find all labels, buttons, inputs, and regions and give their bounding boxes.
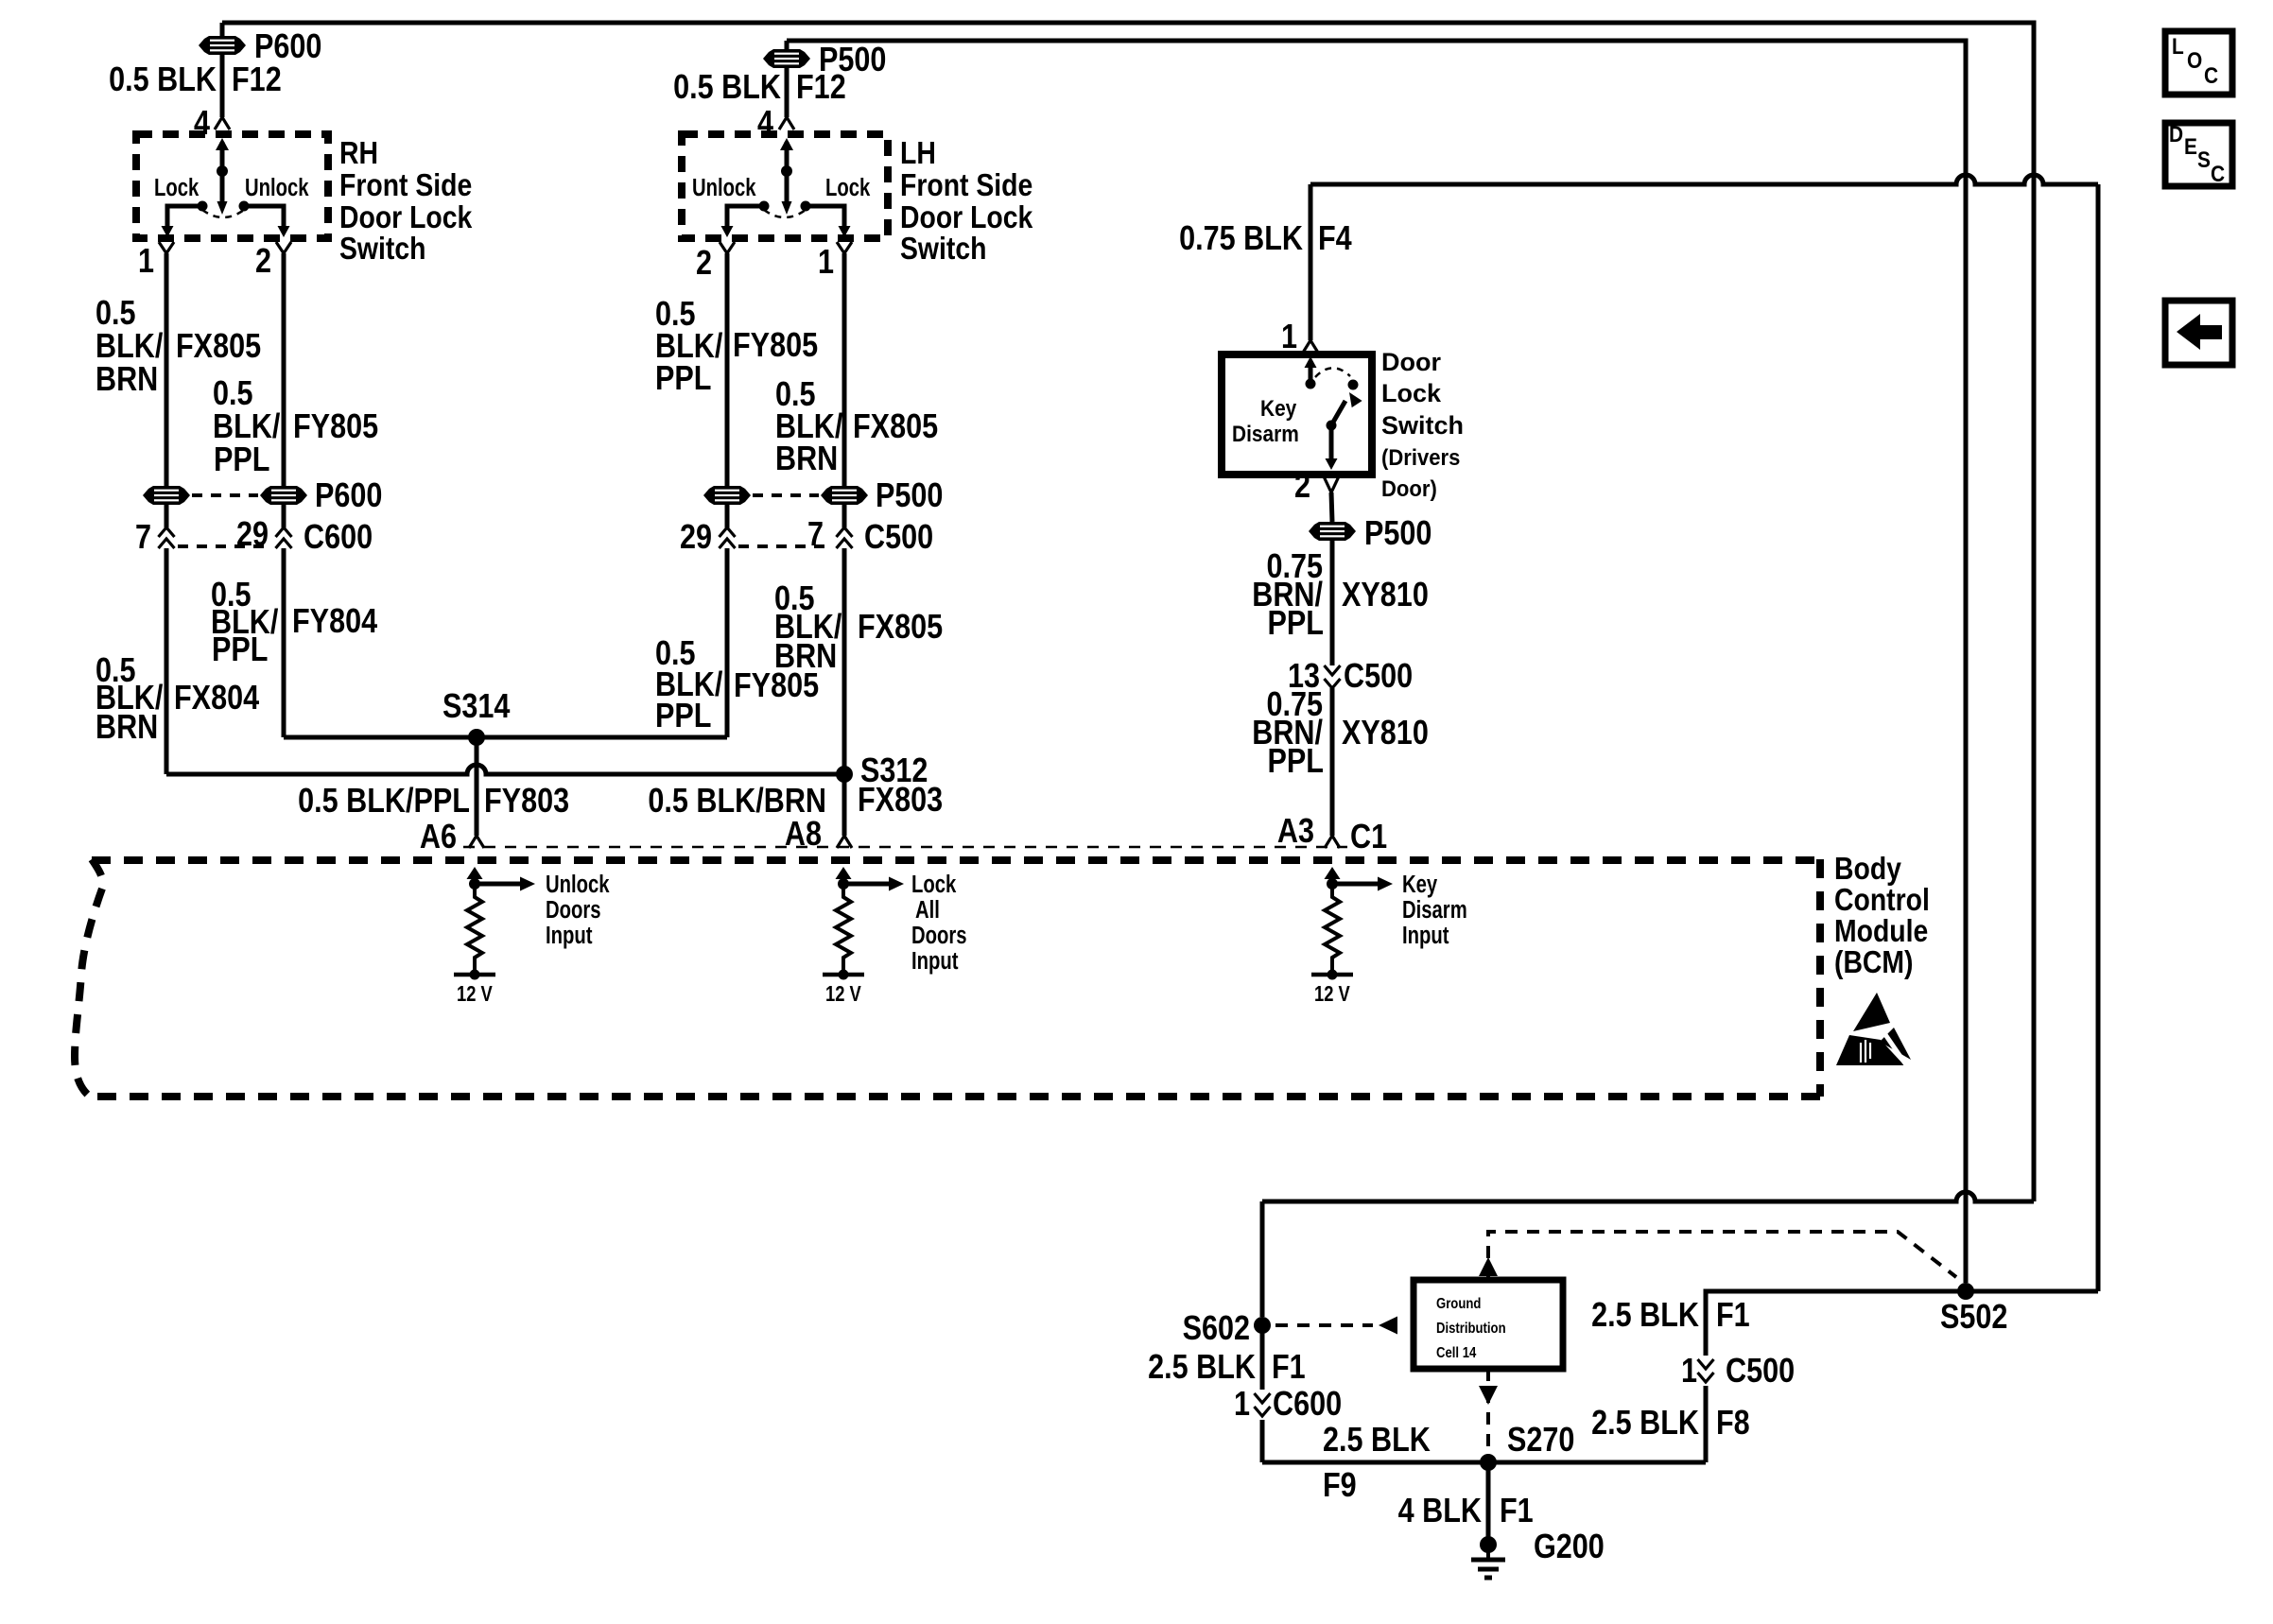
LH switch Lock contact dot	[801, 201, 811, 212]
svg-text:C500: C500	[864, 519, 933, 557]
svg-text:Lock: Lock	[911, 871, 956, 898]
wire drivers pin 2 to P500	[1331, 492, 1332, 522]
dashed tie C500	[738, 544, 833, 548]
resistor unlock doors input (A6)	[473, 873, 477, 884]
svg-text:Unlock: Unlock	[692, 174, 756, 201]
pin 1 terminal fork (LH)	[837, 242, 852, 253]
wire S602 down through C600	[1260, 1325, 1265, 1390]
pin 1 terminal fork (RH)	[159, 242, 174, 253]
svg-text:FY805: FY805	[293, 408, 378, 446]
svg-text:P500: P500	[1364, 515, 1431, 553]
svg-text:2.5 BLK: 2.5 BLK	[1323, 1422, 1431, 1460]
pin 2 terminal fork (RH)	[276, 242, 291, 253]
svg-text:F8: F8	[1716, 1405, 1750, 1443]
connector P500 grommet (drivers)	[1309, 522, 1356, 541]
svg-text:L: L	[2172, 34, 2184, 60]
wire FY803 from S314 down to BCM A6	[475, 737, 479, 836]
svg-text:S502: S502	[1940, 1299, 2007, 1337]
wire FY805 LH pin2 down to P500	[725, 253, 730, 486]
wire XY810 lower segment	[1330, 688, 1335, 836]
wire RH pin2 below P600	[282, 505, 286, 527]
svg-text:PPL: PPL	[1268, 605, 1324, 643]
svg-text:1: 1	[818, 244, 834, 282]
svg-text:Input: Input	[1402, 922, 1449, 949]
svg-text:F1: F1	[1716, 1297, 1750, 1335]
BCM dashed top border	[92, 856, 1820, 864]
svg-text:FX803: FX803	[858, 782, 943, 820]
svg-text:G200: G200	[1534, 1529, 1605, 1566]
svg-text:All: All	[915, 896, 940, 924]
terminal fork A8	[837, 836, 852, 848]
svg-text:0.5 BLK: 0.5 BLK	[673, 69, 781, 107]
svg-text:2: 2	[1294, 468, 1310, 506]
svg-text:FY805: FY805	[734, 667, 819, 705]
wire FY805 RH pin2 down to P600	[282, 253, 286, 486]
svg-text:7: 7	[135, 519, 151, 557]
svg-text:2.5 BLK: 2.5 BLK	[1591, 1405, 1699, 1443]
svg-text:Input: Input	[546, 922, 593, 949]
drivers switch wire down to pin 2	[1329, 425, 1334, 459]
svg-text:Body: Body	[1834, 851, 1901, 887]
RH switch Lock contact dot	[198, 201, 208, 212]
RH front side door lock switch dashed box	[136, 134, 328, 238]
DESC legend box	[2165, 123, 2232, 186]
svg-text:Front Side: Front Side	[339, 167, 472, 203]
back arrow legend box	[2165, 301, 2232, 365]
RH switch wiper dashed arc	[202, 210, 244, 217]
wire stub P500 to LH switch pin 4	[785, 41, 789, 49]
svg-text:P500: P500	[876, 477, 943, 515]
wire 0.75 BLK F4 riser	[1309, 184, 1313, 340]
RH switch Unlock contact dot	[239, 201, 250, 212]
svg-text:BRN: BRN	[95, 709, 158, 747]
splice S312 junction dot	[836, 766, 853, 783]
svg-text:C500: C500	[1726, 1353, 1795, 1391]
svg-text:(Drivers: (Drivers	[1381, 444, 1460, 470]
wire LH pin2 below P500	[725, 505, 730, 527]
wire 2.5 BLK F1 bottom run through S502 splice	[1706, 1291, 2098, 1356]
svg-text:C: C	[2204, 63, 2218, 89]
svg-text:Switch: Switch	[1381, 411, 1464, 440]
dashed tie between P500 grommets	[753, 493, 819, 497]
svg-text:Door Lock: Door Lock	[900, 199, 1033, 235]
svg-text:LH: LH	[900, 135, 936, 171]
svg-text:0.5 BLK/PPL: 0.5 BLK/PPL	[298, 783, 470, 821]
svg-text:4 BLK: 4 BLK	[1398, 1493, 1482, 1530]
svg-text:BRN: BRN	[95, 361, 158, 399]
svg-text:2.5 BLK: 2.5 BLK	[1591, 1297, 1699, 1335]
wire RH pin1 below P600	[165, 505, 169, 527]
connector C500 chevrons pin1	[1698, 1359, 1714, 1382]
wire FX805 LH pin1 down to P500	[842, 253, 847, 486]
svg-text:Door: Door	[1381, 348, 1441, 376]
wire RH pin1 to S312 (horizontal with hop)	[166, 765, 844, 774]
wire RH pin2 to S314 to LH pin2 (horizontal)	[284, 735, 727, 740]
svg-text:BLK/: BLK/	[213, 408, 280, 446]
svg-text:Lock: Lock	[1381, 379, 1442, 407]
svg-text:FY804: FY804	[292, 603, 377, 641]
BCM dashed bottom border	[90, 1093, 1820, 1100]
svg-text:Doors: Doors	[911, 922, 967, 949]
svg-text:Switch: Switch	[339, 231, 425, 267]
svg-text:FX804: FX804	[174, 680, 259, 717]
svg-text:2.5 BLK: 2.5 BLK	[1148, 1349, 1256, 1387]
svg-text:PPL: PPL	[214, 441, 269, 479]
svg-text:12 V: 12 V	[1314, 982, 1350, 1006]
svg-text:S270: S270	[1507, 1422, 1574, 1460]
resistor lock all doors input (A8)	[842, 873, 846, 884]
wire stub P600 to RH switch pin 4	[220, 23, 225, 36]
dashed reference S602 to ground distribution cell	[1275, 1323, 1373, 1327]
svg-text:Lock: Lock	[825, 174, 870, 201]
LH switch Lock branch wire	[806, 206, 844, 227]
svg-text:PPL: PPL	[655, 360, 711, 398]
svg-text:RH: RH	[339, 135, 378, 171]
drivers switch wiper dot	[1327, 421, 1337, 431]
svg-text:O: O	[2187, 48, 2202, 74]
svg-text:Key: Key	[1402, 871, 1437, 898]
svg-text:F1: F1	[1272, 1349, 1306, 1387]
wire 4 BLK F1 to ground	[1486, 1462, 1491, 1538]
svg-text:12 V: 12 V	[457, 982, 493, 1006]
svg-text:XY810: XY810	[1342, 577, 1429, 614]
svg-text:Input: Input	[911, 947, 959, 975]
svg-text:Module: Module	[1834, 913, 1928, 949]
svg-text:Control: Control	[1834, 882, 1930, 918]
BCM dashed left torn edge	[75, 859, 103, 1097]
svg-text:Cell 14: Cell 14	[1436, 1345, 1477, 1361]
svg-text:C1: C1	[1350, 819, 1387, 856]
connector P500 (LH, F12 feed) grommet	[763, 49, 810, 68]
connector C600 chevrons pin29	[276, 527, 292, 548]
svg-text:C: C	[2211, 162, 2225, 187]
connector C1 thin dashed line	[463, 846, 1347, 849]
svg-text:1: 1	[1281, 319, 1297, 356]
svg-text:2: 2	[255, 243, 271, 281]
svg-text:29: 29	[680, 519, 712, 557]
svg-text:0.5 BLK: 0.5 BLK	[109, 61, 217, 99]
connector P600 grommet (RH pin2)	[260, 486, 307, 505]
svg-text:(BCM): (BCM)	[1834, 944, 1914, 980]
svg-text:Lock: Lock	[154, 174, 199, 201]
splice S270 junction dot	[1480, 1454, 1497, 1471]
wire 0.5 BLK F12 ground bus from LH P500 down to S502	[787, 41, 1966, 1283]
LH switch Unlock contact dot	[759, 201, 770, 212]
svg-text:F12: F12	[796, 69, 846, 107]
LH switch wiper dashed arc	[764, 210, 806, 217]
svg-text:0.5 BLK/BRN: 0.5 BLK/BRN	[648, 783, 826, 821]
RH switch common pole arrow and stem	[220, 142, 225, 171]
svg-text:PPL: PPL	[1268, 743, 1324, 781]
connector C500 chevrons pin7	[837, 527, 853, 548]
svg-text:Key: Key	[1260, 396, 1297, 422]
splice S502 junction dot	[1957, 1283, 1974, 1300]
RH switch Lock branch wire	[167, 206, 202, 227]
terminal fork A6	[469, 836, 484, 848]
svg-text:S: S	[2197, 147, 2211, 173]
svg-text:Unlock: Unlock	[546, 871, 610, 898]
svg-text:S314: S314	[442, 688, 511, 726]
terminal fork A3	[1325, 836, 1340, 848]
drivers switch dashed arc	[1315, 368, 1350, 377]
svg-text:1: 1	[138, 243, 154, 281]
wire LH pin1 below P500	[842, 505, 847, 527]
svg-text:2: 2	[696, 245, 712, 283]
splice S602 junction dot	[1254, 1317, 1271, 1334]
LH front side door lock switch dashed box	[682, 134, 888, 238]
splice S314 junction dot	[468, 729, 485, 746]
pin 1 terminal chevron (drivers)	[1303, 340, 1318, 353]
svg-text:0.75 BLK: 0.75 BLK	[1179, 220, 1303, 258]
ESD sensitive device symbol	[1853, 993, 1890, 1031]
dashed tie C600	[178, 544, 272, 548]
svg-text:1: 1	[1234, 1386, 1250, 1424]
pin 4 terminal chevron (RH)	[215, 117, 230, 130]
drivers switch right contact dot	[1348, 380, 1359, 390]
drivers switch wiper arrow to contact	[1331, 401, 1345, 425]
dashed reference below cell box to S270	[1486, 1369, 1490, 1462]
pin 2 terminal fork (LH)	[720, 242, 735, 253]
svg-text:F1: F1	[1500, 1493, 1534, 1530]
svg-text:Switch: Switch	[900, 231, 986, 267]
svg-text:FY803: FY803	[484, 783, 569, 821]
resistor key disarm input (A3)	[1330, 873, 1335, 884]
svg-text:Door Lock: Door Lock	[339, 199, 473, 235]
svg-text:FX805: FX805	[176, 328, 261, 366]
wire 2.5 BLK F9 run	[1262, 1460, 1706, 1465]
wire 0.5 BLK F12 ground bus from RH P600 to S602 (top line, right riser, bottom run)	[222, 23, 2034, 1201]
drivers switch pole arrow up	[1309, 361, 1313, 384]
svg-text:PPL: PPL	[655, 698, 711, 735]
svg-text:S602: S602	[1183, 1310, 1250, 1348]
svg-text:XY810: XY810	[1342, 715, 1429, 752]
svg-text:Door): Door)	[1381, 475, 1437, 501]
svg-text:F12: F12	[232, 61, 282, 99]
RH switch Unlock branch wire	[244, 206, 284, 227]
svg-text:A3: A3	[1277, 813, 1314, 851]
connector P600 (RH, F12 feed) grommet	[199, 36, 246, 55]
connector C600 chevrons pin7	[159, 527, 175, 548]
connector C500 chevrons pin29	[720, 527, 736, 548]
pin 2 terminal fork (drivers)	[1324, 476, 1339, 492]
svg-text:F4: F4	[1318, 220, 1352, 258]
connector P600 grommet (RH pin1)	[143, 486, 190, 505]
svg-text:1: 1	[1681, 1353, 1697, 1391]
svg-text:Ground: Ground	[1436, 1296, 1481, 1312]
svg-text:FY805: FY805	[733, 327, 818, 365]
door lock switch (drivers door) box	[1222, 354, 1372, 475]
LH switch common pole arrow and stem	[785, 142, 789, 171]
svg-text:Front Side: Front Side	[900, 167, 1032, 203]
connector C500 chevrons pin13	[1325, 665, 1341, 688]
svg-text:Disarm: Disarm	[1232, 422, 1299, 447]
svg-text:C500: C500	[1344, 658, 1413, 696]
svg-text:BLK/: BLK/	[95, 328, 163, 366]
svg-text:C600: C600	[1273, 1386, 1342, 1424]
svg-text:E: E	[2184, 134, 2197, 160]
wire 2.5 BLK F1/F8 right branch	[1704, 1386, 1709, 1462]
svg-text:C600: C600	[304, 519, 373, 557]
svg-text:FX805: FX805	[853, 408, 938, 446]
wire FX805 RH pin1 down to P600	[165, 253, 169, 486]
LH switch Unlock branch wire	[727, 206, 764, 227]
wire XY810 upper segment	[1330, 541, 1335, 665]
pin 4 terminal chevron (LH)	[779, 117, 794, 130]
wire 0.75 BLK F4 from drivers door lock switch to S502 bottom corner	[1310, 175, 2098, 184]
svg-text:0.5: 0.5	[213, 375, 253, 413]
dashed reference above cell box to S502	[1488, 1232, 1956, 1280]
svg-text:P600: P600	[254, 28, 321, 66]
ground G200 symbol	[1480, 1536, 1497, 1553]
connector P500 grommet (LH pin1)	[821, 486, 868, 505]
svg-text:FX805: FX805	[858, 609, 943, 647]
connector P500 grommet (LH pin2)	[703, 486, 751, 505]
dashed tie between P600 grommets	[192, 493, 258, 497]
svg-text:P600: P600	[315, 477, 382, 515]
svg-text:BRN: BRN	[775, 441, 838, 478]
svg-text:D: D	[2169, 122, 2183, 147]
svg-text:Doors: Doors	[546, 896, 601, 924]
svg-text:F9: F9	[1323, 1467, 1357, 1505]
svg-text:0.5: 0.5	[95, 295, 136, 333]
svg-text:12 V: 12 V	[825, 982, 861, 1006]
svg-text:PPL: PPL	[212, 631, 268, 669]
BCM dashed right border	[1816, 859, 1824, 1097]
svg-text:Unlock: Unlock	[245, 174, 309, 201]
svg-text:Distribution: Distribution	[1436, 1321, 1506, 1337]
connector C600 chevrons pin1	[1255, 1393, 1271, 1416]
svg-text:A6: A6	[420, 819, 457, 856]
svg-text:Disarm: Disarm	[1402, 896, 1467, 924]
LOC legend box	[2165, 31, 2232, 95]
ground distribution cell 14 box	[1414, 1280, 1563, 1369]
